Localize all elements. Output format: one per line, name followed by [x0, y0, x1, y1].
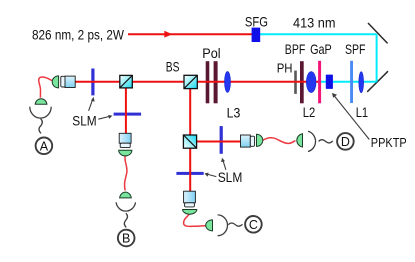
arrow SLM left right: [98, 115, 112, 119]
SLM 2: [114, 113, 142, 116]
svg-text:L1: L1: [356, 104, 369, 120]
coupler dome D: [257, 134, 263, 146]
bracket arc A: [30, 107, 51, 118]
svg-text:SFG: SFG: [245, 14, 268, 30]
beam BS1 down: [125, 82, 127, 134]
squiggle C: [228, 223, 242, 226]
lens L3: [225, 71, 231, 92]
svg-text:GaP: GaP: [310, 41, 332, 57]
beamsplitter BS3: [183, 135, 196, 148]
svg-text:L3: L3: [227, 104, 241, 120]
PPKTP crystal: [326, 75, 333, 89]
coupler dome B: [119, 150, 132, 156]
SFG crystal: [252, 28, 261, 42]
detector dome C: [206, 220, 213, 231]
polarizer Pol plate 2: [214, 61, 218, 103]
filter BPF: [300, 61, 304, 103]
bracket arc D: [308, 131, 316, 151]
beam 413nm top: [260, 33, 377, 35]
svg-text:SLM: SLM: [72, 112, 96, 128]
squiggle D: [319, 140, 333, 143]
polarizer Pol plate 1: [206, 61, 210, 103]
squiggle B: [124, 213, 127, 227]
squiggle A: [39, 119, 42, 134]
beamsplitter BS2: [184, 75, 197, 88]
pinhole PH: [294, 71, 297, 94]
lens L1: [359, 72, 364, 93]
svg-text:413 nm: 413 nm: [293, 15, 336, 31]
bracket arc B: [116, 202, 135, 211]
coupler dome A: [52, 76, 58, 88]
label circle C: [245, 216, 262, 233]
lens L2: [306, 72, 316, 93]
svg-text:B: B: [122, 232, 130, 246]
svg-text:A: A: [40, 139, 49, 153]
mirror M2: [367, 71, 388, 92]
svg-text:BS: BS: [166, 58, 180, 74]
label circle B: [118, 230, 135, 247]
main red beam: [75, 81, 319, 83]
svg-text:826 nm, 2 ps, 2W: 826 nm, 2 ps, 2W: [32, 26, 125, 42]
SLM 4: [220, 126, 223, 154]
collimator C: [184, 191, 196, 207]
label circle A: [36, 138, 53, 155]
SLM 1: [91, 69, 94, 96]
detector dome B: [120, 192, 132, 198]
beam BS2 to BS3 down: [189, 82, 191, 192]
filter GaP: [318, 61, 321, 104]
fiber A: [39, 77, 52, 98]
svg-text:L2: L2: [303, 104, 316, 120]
svg-text:BPF: BPF: [285, 41, 306, 57]
beam 413nm vertical: [376, 34, 378, 81]
beam BS3 right: [190, 141, 241, 143]
beam 413nm to crystal: [320, 81, 377, 83]
coupler dome C: [183, 210, 197, 215]
SLM 3: [176, 172, 203, 175]
arrow SLM right left: [204, 173, 216, 177]
label circle D: [337, 133, 354, 150]
fiber B: [125, 155, 127, 190]
svg-text:SPF: SPF: [345, 41, 366, 57]
pump beam 826nm: [128, 31, 252, 38]
leader PPKTP: [332, 93, 369, 140]
svg-text:Pol: Pol: [202, 45, 220, 61]
detector dome D: [297, 134, 303, 147]
filter SPF: [350, 61, 353, 103]
arrow SLM left up: [89, 97, 95, 111]
svg-text:C: C: [249, 218, 258, 232]
arrow SLM right up: [221, 158, 226, 170]
collimator A: [61, 76, 75, 87]
svg-text:D: D: [341, 135, 350, 149]
collimator B: [119, 133, 131, 147]
mirror M1: [368, 23, 388, 43]
beamsplitter BS1: [120, 75, 133, 88]
svg-text:SLM: SLM: [218, 169, 243, 185]
fiber C: [184, 214, 206, 227]
bracket arc C: [218, 215, 228, 236]
collimator D: [241, 135, 255, 147]
svg-text:PPKTP: PPKTP: [371, 135, 407, 150]
fiber D: [263, 138, 296, 144]
detector dome A: [35, 99, 47, 104]
svg-text:PH: PH: [277, 60, 293, 75]
